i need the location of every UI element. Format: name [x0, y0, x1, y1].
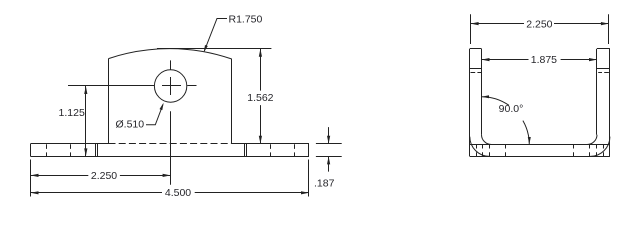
- hole Ø.510 circle: [154, 70, 186, 102]
- front view base plate: bottom edge: [31, 156, 310, 158]
- front view boss: left side: [108, 59, 110, 144]
- side view base: hidden verticals (dashed): [476, 145, 478, 149]
- side view: inner fillet right: [587, 135, 597, 145]
- side view left wall: outer edge: [469, 49, 471, 157]
- side view base: bottom edge: [470, 156, 610, 158]
- side view right wall: hidden line (dashed): [598, 72, 602, 74]
- dimension 1.125: dimension line with arrows: [85, 86, 87, 156]
- dimension 4.500: dimension line with arrows: [31, 192, 163, 194]
- side view: outer bend arc left: [470, 137, 490, 157]
- leader Ø.510: polyline and arrow to hole edge: [146, 105, 163, 125]
- svg-text:2.250: 2.250: [526, 18, 552, 30]
- front view base plate: top edge right solid segment: [232, 143, 309, 145]
- svg-text:2.250: 2.250: [91, 170, 117, 182]
- extension line at plate left edge: [30, 160, 32, 197]
- dimension 2.250 front: dimension line with arrows: [31, 175, 89, 177]
- side view left wall: edge line: [470, 68, 482, 70]
- side view base: top edge: [470, 144, 610, 146]
- dimension 1.562: dimension line with arrows: [260, 49, 262, 91]
- dimension 1.875: dimension line with arrows: [482, 59, 529, 61]
- dimension .187: extension lines: [316, 143, 342, 145]
- svg-text:1.125: 1.125: [59, 107, 85, 119]
- side view: inner fillet left: [482, 135, 492, 145]
- side view left wall: inner edge: [481, 49, 483, 135]
- side view right wall: inner edge: [596, 49, 598, 135]
- side view right wall: outer edge: [609, 49, 611, 157]
- dimension 2.250 side: extension lines: [470, 14, 472, 44]
- extension line at plate right edge: [308, 160, 310, 197]
- side view left wall: top edge: [470, 48, 482, 50]
- dimension 2.250 side: dimension line with arrows: [471, 23, 524, 25]
- front view plate: visible edge line pairs: [95, 144, 97, 157]
- svg-text:4.500: 4.500: [165, 187, 191, 199]
- front view boss: top arc R1.750: [109, 49, 232, 59]
- side view: outer bend arc right: [590, 137, 610, 157]
- front view base plate: left edge: [30, 144, 32, 157]
- svg-text:1.875: 1.875: [531, 54, 557, 66]
- front view base plate: top edge left solid segment: [31, 143, 109, 145]
- side view right wall: top edge: [597, 48, 610, 50]
- leader R1.750: polyline and arrow to arc: [204, 19, 227, 52]
- svg-text:R1.750: R1.750: [229, 13, 263, 25]
- side view left wall: hidden line (dashed): [471, 72, 476, 74]
- svg-text:.187: .187: [314, 178, 335, 190]
- hole vertical centerline and extension: [170, 60, 172, 69]
- dimension 90.0&#176;: arc dimension line with arrows: [482, 97, 509, 106]
- hole horizontal centerline: [68, 85, 154, 87]
- svg-text:90.0°: 90.0°: [499, 103, 524, 115]
- front view base plate: right edge: [308, 144, 310, 157]
- svg-text:1.562: 1.562: [247, 92, 273, 104]
- side view right wall: edge line: [597, 68, 610, 70]
- front view plate: hidden bend lines (dashed verticals): [46, 144, 48, 149]
- svg-text:Ø.510: Ø.510: [116, 119, 145, 131]
- front view base plate: hidden top edge under boss (dashed): [109, 143, 232, 145]
- dimension .187: dimension line with arrows: [328, 127, 330, 144]
- front view boss: right side: [231, 59, 233, 144]
- dimension 1.562: extension line at arc top: [157, 48, 271, 50]
